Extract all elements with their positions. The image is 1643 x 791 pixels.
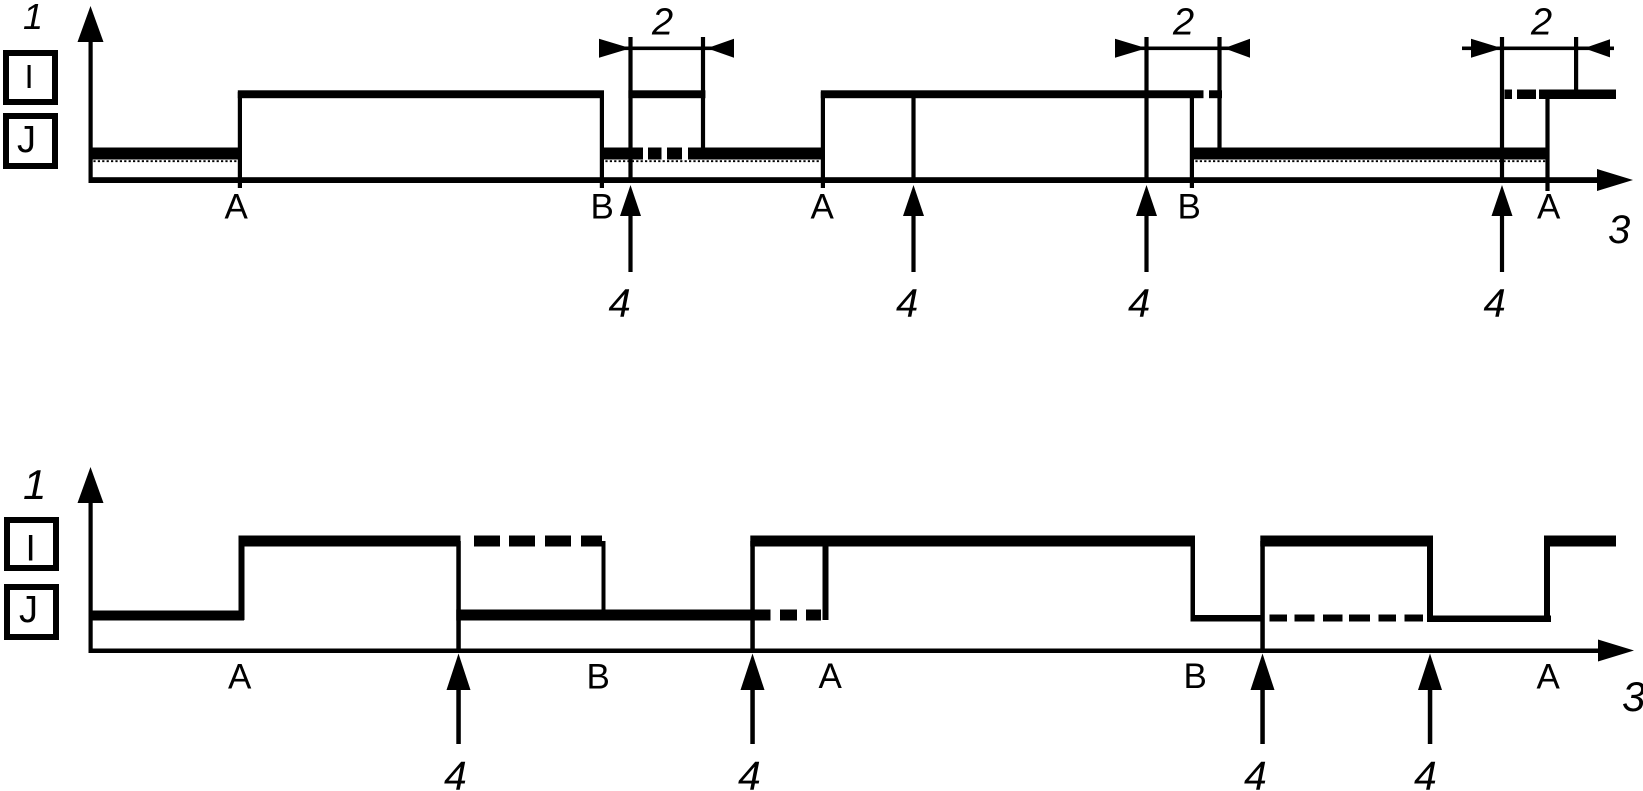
svg-text:4: 4 (444, 753, 467, 791)
event arrow 4 #2 (bottom) (738, 654, 765, 791)
wire: high level segment A2 to B2 (top) (821, 90, 1204, 98)
svg-text:1: 1 (23, 0, 43, 37)
dimension 2 interval marker #3 (top) (1462, 2, 1614, 184)
vertical axis (top diagram) (78, 6, 104, 183)
svg-text:2: 2 (1530, 2, 1552, 44)
node A rising edge 3 (top) (1545, 95, 1549, 191)
node A rising edge 1 (bottom) (239, 541, 245, 620)
right arrowhead (1224, 39, 1250, 58)
right arrowhead (1584, 39, 1610, 57)
svg-text:A: A (225, 188, 249, 227)
svg-text:4: 4 (1414, 753, 1437, 791)
event line at 4 #1 (bottom): falling edge to axis (456, 541, 461, 653)
wire: high level stub between dimension ticks #1 (top) (628, 90, 705, 98)
wire: low level band after B1 solid part (top) (600, 148, 643, 160)
svg-text:3: 3 (1622, 673, 1643, 720)
wire: thin under-line artifact after B1 (top) (601, 160, 824, 162)
wire: low level band resuming to A2 (top) (688, 148, 825, 160)
wire: low level segment to A3 (bottom) (1427, 616, 1551, 623)
wire: high level segment A to event 4 (bottom) (239, 536, 461, 547)
event arrow 4 #1 (bottom) (444, 654, 471, 791)
svg-text:B: B (587, 658, 610, 697)
node B falling edge 1 (top) (600, 92, 604, 188)
event arrow 4 #4 (bottom) (1414, 654, 1442, 791)
event arrow 4 #3 (top) (1128, 185, 1157, 326)
svg-text:4: 4 (609, 282, 631, 326)
svg-text:A: A (1537, 658, 1561, 697)
event arrow 4 #2 (top) (896, 185, 924, 326)
wire: low level segment B to event4 (bottom) (1191, 615, 1265, 622)
event marker line at 4 #2 (top) (911, 96, 915, 181)
wire: low level segment event4 to event4 (bottom) (456, 610, 770, 621)
svg-text:4: 4 (1128, 282, 1150, 326)
svg-text:A: A (228, 658, 252, 697)
svg-text:A: A (811, 188, 835, 227)
left arrowhead (1471, 39, 1502, 58)
wire: high level segment to B (bottom) (750, 536, 1195, 547)
svg-text:4: 4 (738, 753, 761, 791)
dimension line (1472, 47, 1606, 51)
event arrow 4 #3 (bottom) (1244, 654, 1275, 791)
dimension line (1116, 47, 1250, 51)
left arrowhead (599, 39, 631, 58)
node A rising edge 2 (top) (821, 92, 825, 188)
event line at 4 #3 (bottom): rising edge from axis (1260, 541, 1265, 653)
node A rising edge 1 (top) (238, 92, 242, 188)
event line at 4 #2 (bottom): rising edge from axis (750, 541, 755, 653)
svg-text:4: 4 (896, 282, 918, 326)
dimension line (600, 47, 734, 51)
svg-text:2: 2 (1172, 2, 1194, 44)
wire: low level band from origin to A (top) (89, 148, 243, 160)
svg-text:4: 4 (1484, 282, 1506, 326)
svg-text:3: 3 (1608, 208, 1630, 252)
svg-text:2: 2 (651, 2, 673, 44)
horizontal time axis (bottom diagram) (89, 640, 1635, 662)
wire: high level segment event4 to fall (bottom) (1260, 536, 1433, 547)
svg-text:B: B (591, 188, 614, 227)
svg-text:I: I (26, 528, 36, 569)
svg-text:B: B (1178, 188, 1201, 227)
right extension tick (701, 37, 705, 158)
svg-text:A: A (1537, 188, 1561, 227)
node B falling edge 2 (top) (1190, 92, 1194, 188)
wire: high level segment after A3 (top) (1539, 90, 1616, 100)
wire: high level segment after A3 (bottom) (1544, 536, 1616, 547)
wire: high level stub for dimension #2 (top) (1209, 90, 1222, 98)
wire: low level dashed part after B1 (top) (648, 148, 662, 160)
node A phantom rising edge (bottom) (823, 546, 829, 620)
node B phantom falling edge (bottom) (602, 541, 606, 616)
svg-text:B: B (1184, 657, 1207, 696)
wire: phantom dashed low level to A (bottom) (780, 610, 821, 621)
svg-text:A: A (819, 657, 843, 696)
svg-text:J: J (17, 119, 36, 161)
wire: phantom dashed low level (bottom) (1270, 615, 1424, 622)
node B falling edge (bottom) (1191, 541, 1196, 618)
wire: phantom dashed high level to B (bottom) (474, 536, 602, 547)
event arrow 4 #1 (top) (609, 185, 642, 326)
horizontal time axis (top diagram) (89, 169, 1634, 191)
wire: low level band after B2 to A3 (top) (1190, 148, 1547, 160)
signal box I (bottom) (7, 520, 56, 569)
signal box I (top) (6, 53, 55, 102)
event arrow 4 #4 (top) (1484, 185, 1513, 326)
dimension 2 interval marker #2 (top) (1115, 2, 1250, 184)
left extension tick (over event 4 line) (628, 37, 632, 183)
wire: thin under-line artifact from origin to A (top) (89, 160, 238, 162)
signal box J (bottom) (7, 587, 56, 637)
wire: thin under-line artifact after B2 (top) (1191, 160, 1546, 162)
vertical axis (bottom diagram) (78, 467, 104, 653)
left extension tick (over event 4 line) (1500, 37, 1504, 183)
right extension tick (1217, 37, 1221, 150)
left arrowhead (1115, 39, 1147, 58)
wire: low level from origin to A (bottom) (89, 611, 245, 621)
signal box J (top) (6, 116, 55, 166)
svg-text:I: I (25, 58, 34, 95)
right extension tick (1574, 37, 1578, 93)
falling edge at event 4 #4 (bottom) (1427, 541, 1433, 620)
svg-text:J: J (19, 589, 38, 631)
wire: high level dashes before A3 (top) (1505, 90, 1513, 100)
left extension tick (over event 4 line) (1144, 37, 1148, 183)
dimension 2 interval marker #1 (top) (599, 2, 734, 184)
node A rising edge 3 (bottom) (1544, 541, 1550, 620)
right arrowhead (707, 39, 734, 58)
svg-text:1: 1 (23, 461, 46, 508)
wire: high level segment A to B (top) (238, 90, 604, 98)
svg-text:4: 4 (1244, 753, 1267, 791)
